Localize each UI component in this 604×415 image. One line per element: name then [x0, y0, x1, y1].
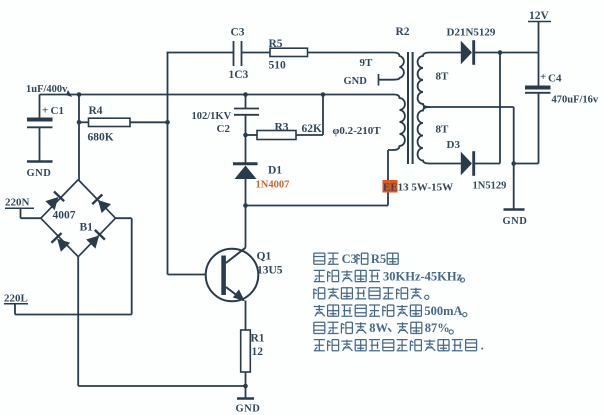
wire D2 to 12V rail	[475, 52, 539, 54]
svg-text:R3: R3	[275, 122, 289, 134]
ground secondary	[504, 208, 525, 210]
svg-text:9T: 9T	[360, 57, 374, 69]
label EE13 5W-15W	[383, 180, 398, 193]
svg-text:C1: C1	[51, 105, 64, 117]
wire bridge bottom drop	[77, 257, 79, 386]
node R4 left	[77, 120, 82, 125]
svg-text:680K: 680K	[88, 132, 114, 144]
svg-text:13U5: 13U5	[257, 265, 283, 277]
svg-text:1N5129: 1N5129	[473, 181, 507, 192]
svg-text:GND: GND	[503, 216, 528, 227]
svg-text:+: +	[42, 105, 48, 117]
capacitor C2	[234, 108, 259, 110]
svg-text:4007: 4007	[53, 210, 76, 222]
svg-text:+: +	[540, 71, 546, 83]
transformer secondary bottom 8T	[418, 107, 430, 164]
node D2 output junction	[498, 50, 503, 55]
wire 220L horizontal	[15, 314, 132, 316]
wire C3 to R5	[242, 52, 271, 54]
transistor Q1	[206, 249, 259, 302]
wire 220L riser to bridge right	[131, 218, 133, 314]
svg-text:D21N5129: D21N5129	[447, 27, 496, 39]
svg-text:1C3: 1C3	[229, 69, 249, 81]
wire bottom ground rail	[78, 385, 245, 387]
svg-text:C4: C4	[548, 73, 562, 85]
note text line 5	[314, 322, 325, 333]
svg-text:EE13 5W-15W: EE13 5W-15W	[383, 182, 453, 194]
svg-text:Q1: Q1	[257, 251, 272, 263]
wire secondary top to D2	[430, 52, 461, 54]
wire emitter	[245, 301, 247, 331]
svg-text:R5: R5	[371, 252, 386, 266]
node rail/C2 junction	[243, 92, 248, 97]
svg-text:8T: 8T	[436, 124, 450, 136]
diode bridge bottom-right 4007	[86, 230, 105, 249]
wire D1 to collector junction	[245, 179, 247, 248]
svg-text:87%: 87%	[425, 321, 450, 335]
label arrow 1uF/400v	[66, 90, 72, 97]
svg-text:R1: R1	[251, 333, 265, 345]
wire 220N to bridge left	[21, 217, 41, 219]
transformer core	[407, 52, 409, 164]
node rail/bridge junction	[77, 92, 82, 97]
transformer T1 feedback winding 9T	[379, 53, 404, 80]
svg-text:220L: 220L	[4, 293, 28, 305]
node rail/R3 junction	[321, 92, 326, 97]
diode bridge top-left 4007	[45, 191, 64, 210]
svg-text:D1: D1	[268, 165, 282, 177]
wire base	[168, 274, 207, 276]
diode bridge top-right 4007	[92, 194, 111, 213]
capacitor C4	[538, 53, 540, 86]
svg-text:8T: 8T	[436, 71, 450, 83]
svg-text:62K: 62K	[302, 123, 323, 135]
wire rail to C2	[245, 95, 247, 109]
diode D1	[233, 162, 258, 165]
wire D3 output riser	[475, 163, 501, 165]
svg-text:D3: D3	[447, 139, 461, 151]
resistor R5	[270, 48, 308, 56]
wire rail to bridge top	[78, 95, 80, 181]
wire secondary bottom to D3	[430, 163, 461, 165]
note text line 6	[314, 340, 325, 351]
note text line 1	[314, 253, 325, 264]
svg-text:1uF/400v: 1uF/400v	[26, 84, 68, 95]
node C2/R3 junction	[243, 133, 248, 138]
svg-text:C2: C2	[217, 123, 231, 135]
resistor R1	[241, 330, 251, 372]
feedback winding GND tap	[378, 74, 380, 86]
svg-text:1N4007: 1N4007	[256, 180, 290, 191]
wire secondary center tap	[423, 106, 514, 108]
svg-text:30KHz-45KHz: 30KHz-45KHz	[383, 269, 463, 283]
svg-text:12: 12	[252, 346, 264, 358]
svg-text:φ0.2-210T: φ0.2-210T	[333, 125, 382, 137]
transformer T1 primary winding 210T	[388, 95, 405, 151]
note text line 2	[314, 270, 325, 281]
wire R5 to transformer feedback winding	[308, 52, 394, 54]
svg-text:220N: 220N	[5, 197, 30, 209]
wire top feedback horizontal left	[167, 52, 234, 54]
resistor R3	[246, 134, 258, 136]
bridge B1 diamond arms	[41, 180, 78, 219]
transformer secondary top 8T	[418, 53, 430, 108]
wire center tap to ground	[513, 107, 515, 209]
svg-text:510: 510	[269, 60, 287, 72]
note text line 4	[314, 305, 325, 316]
diode D2	[461, 41, 472, 65]
svg-text:GND: GND	[236, 404, 261, 415]
svg-text:500mA: 500mA	[424, 304, 462, 318]
wire junction to transformer primary bottom	[246, 205, 389, 207]
capacitor C1	[39, 95, 41, 118]
svg-text:12V: 12V	[529, 10, 550, 22]
svg-text:8W: 8W	[369, 321, 388, 335]
node center tap / C4 bottom junction	[511, 161, 516, 166]
ground below C1	[27, 160, 53, 162]
svg-text:C3: C3	[342, 252, 357, 266]
ground main	[237, 397, 254, 400]
node collector / primary junction	[243, 203, 248, 208]
capacitor C3	[233, 41, 235, 66]
resistor R4	[79, 121, 89, 123]
node R4 right / base column	[165, 120, 170, 125]
svg-text:C3: C3	[231, 27, 245, 39]
svg-text:470uF/16v: 470uF/16v	[552, 95, 599, 106]
svg-text:102/1KV: 102/1KV	[192, 111, 232, 122]
note text line 3	[314, 288, 325, 299]
wire R1 to ground rail	[245, 372, 247, 399]
diode D3	[461, 152, 472, 176]
wire C3 left vertical to rail and base column	[167, 52, 169, 275]
node ground junction	[243, 384, 248, 389]
svg-text:R2: R2	[396, 26, 410, 38]
svg-text:R4: R4	[89, 105, 103, 117]
svg-text:GND: GND	[344, 76, 368, 87]
svg-text:R5: R5	[269, 38, 283, 50]
diode bridge bottom-left 4007	[51, 233, 70, 252]
svg-text:B1: B1	[80, 222, 94, 234]
svg-text:GND: GND	[27, 168, 52, 179]
wire main rail	[40, 94, 395, 96]
svg-text:.: .	[481, 338, 484, 353]
